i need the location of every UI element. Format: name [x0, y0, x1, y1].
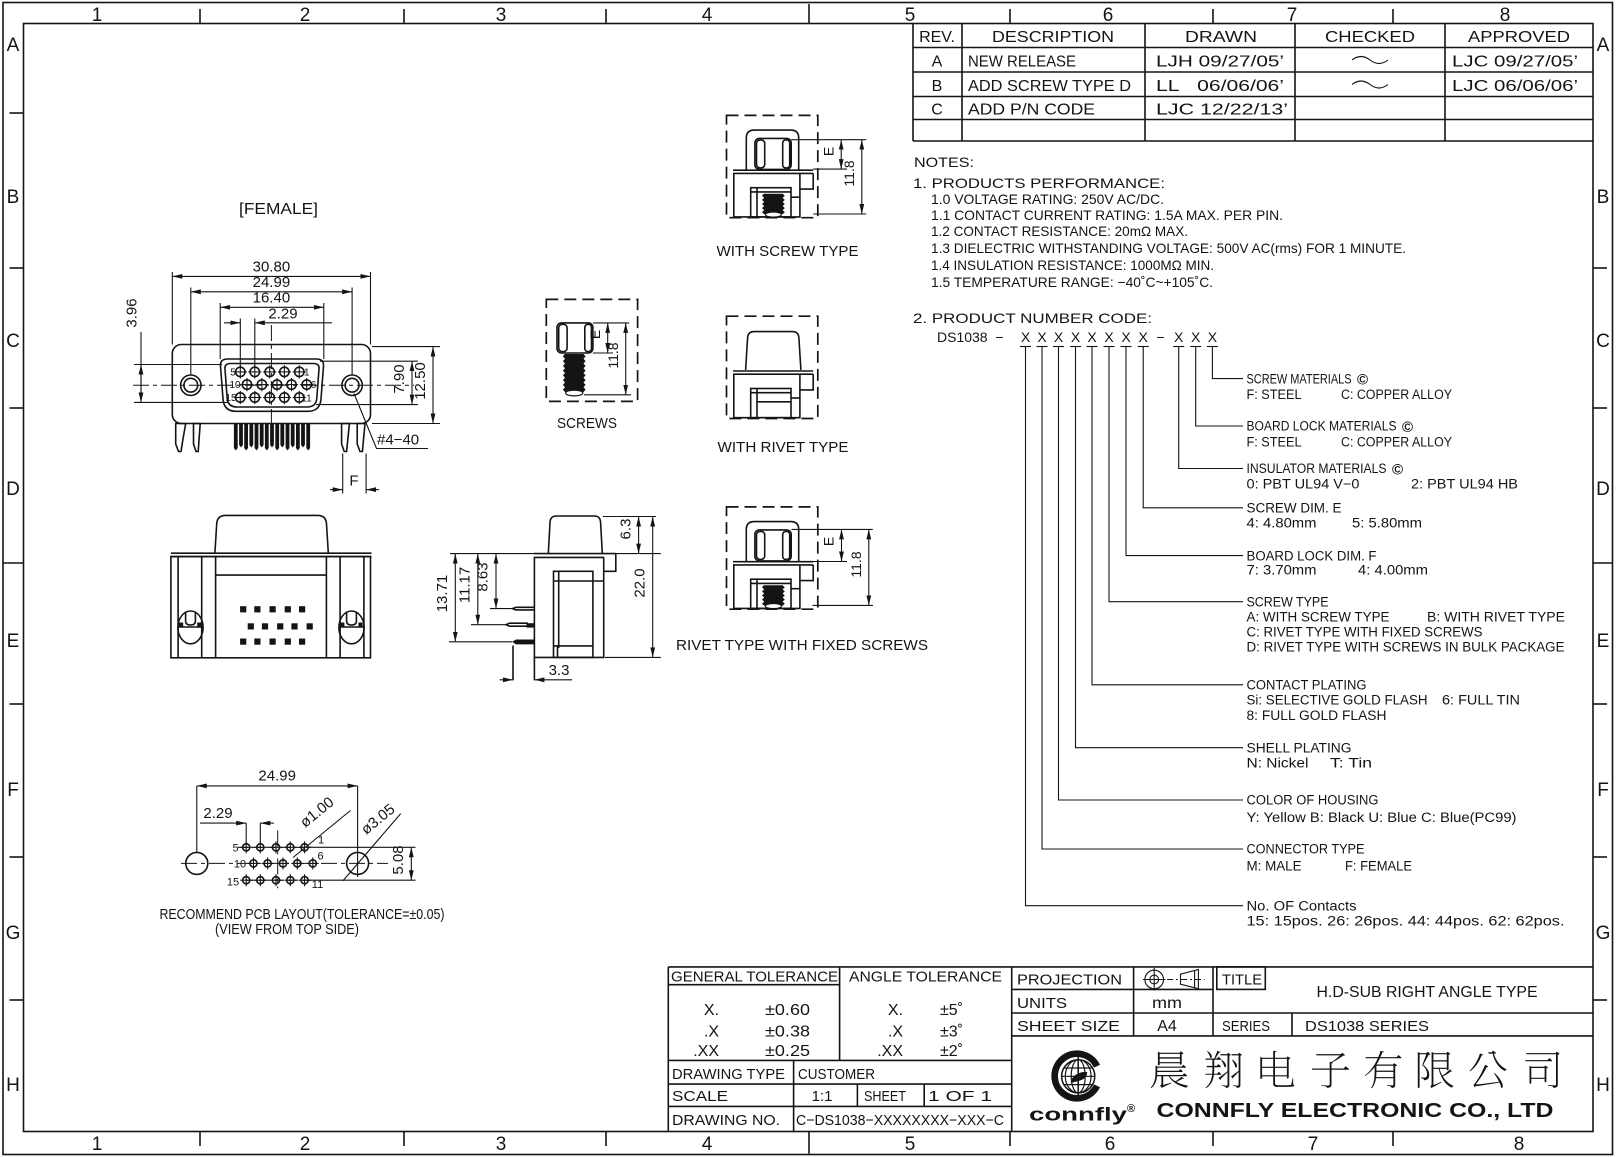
svg-text:5: 5.80mm: 5: 5.80mm: [1352, 516, 1422, 531]
svg-text:CONNFLY ELECTRONIC CO., LTD: CONNFLY ELECTRONIC CO., LTD: [1157, 1099, 1554, 1122]
svg-text:LJH 09/27/05’: LJH 09/27/05’: [1156, 54, 1284, 71]
svg-text:E: E: [821, 537, 837, 546]
PCB LAYOUT: [160, 768, 445, 939]
svg-text:2.29: 2.29: [268, 305, 297, 322]
svg-text:11.8: 11.8: [841, 160, 857, 186]
svg-text:24.99: 24.99: [258, 768, 296, 785]
svg-text:DS1038 −: DS1038 −: [937, 329, 1004, 345]
svg-text:PROJECTION: PROJECTION: [1017, 972, 1122, 989]
svg-text:4: 4.80mm: 4: 4.80mm: [1247, 516, 1317, 531]
svg-text:1:1: 1:1: [812, 1088, 833, 1105]
grid tick top: [403, 9, 405, 24]
svg-text:−: −: [1156, 329, 1164, 345]
dim 30.80: [172, 275, 370, 277]
dim 11.17: [477, 554, 479, 625]
svg-text:11.8: 11.8: [605, 342, 621, 368]
svg-text:H: H: [6, 1075, 20, 1096]
svg-text:C: COPPER ALLOY: C: COPPER ALLOY: [1341, 434, 1452, 449]
board lock oval left: [178, 611, 203, 644]
svg-text:4: 4: [702, 5, 713, 26]
svg-text:8: 8: [1514, 1134, 1525, 1155]
grid tick right: [1593, 267, 1607, 269]
svg-text:.XX: .XX: [693, 1043, 719, 1060]
dim 5.08: [309, 846, 416, 848]
svg-text:E: E: [1597, 631, 1610, 652]
svg-text:5: 5: [905, 5, 916, 26]
mounting hole left: [181, 375, 201, 395]
svg-text:#4−40: #4−40: [377, 432, 419, 449]
svg-text:11: 11: [312, 879, 323, 891]
svg-text:C: COPPER ALLOY: C: COPPER ALLOY: [1341, 387, 1452, 402]
svg-text:16.40: 16.40: [253, 290, 291, 307]
svg-text:4: 4: [702, 1134, 713, 1155]
svg-text:LJC 06/06/06’: LJC 06/06/06’: [1452, 78, 1578, 95]
svg-text:±0.60: ±0.60: [765, 1002, 810, 1019]
grid tick bottom: [403, 1132, 405, 1147]
pin middle: [506, 623, 528, 626]
svg-text:11: 11: [301, 394, 312, 405]
svg-text:®: ®: [1127, 1103, 1135, 1115]
svg-text:12.50: 12.50: [412, 362, 429, 400]
SIDE VIEW: [434, 516, 661, 680]
svg-text:.X: .X: [704, 1024, 719, 1041]
dim E view1: [791, 139, 866, 141]
dim 24.99: [191, 291, 352, 293]
grid tick bottom: [808, 1132, 810, 1154]
svg-text:24.99: 24.99: [253, 274, 291, 291]
svg-text:CHECKED: CHECKED: [1325, 29, 1415, 46]
svg-text:13.71: 13.71: [434, 575, 451, 613]
svg-text:1.5 TEMPERATURE RANGE: −40˚C~+: 1.5 TEMPERATURE RANGE: −40˚C~+105˚C.: [931, 274, 1213, 290]
svg-text:1.4 INSULATION RESISTANCE: 100: 1.4 INSULATION RESISTANCE: 1000MΩ MIN.: [931, 257, 1214, 273]
dim 13.71: [454, 554, 456, 642]
svg-text:6: 6: [1105, 1134, 1116, 1155]
svg-text:4: 4.00mm: 4: 4.00mm: [1358, 562, 1428, 577]
svg-text:DRAWING TYPE: DRAWING TYPE: [672, 1066, 785, 1083]
dim E view3: [792, 528, 873, 530]
dim 2.29: [224, 322, 240, 324]
company name chinese: [1151, 1051, 1560, 1089]
svg-text:T: Tin: T: Tin: [1330, 756, 1372, 771]
grid tick top: [1392, 9, 1394, 24]
pin bottom thick: [512, 640, 534, 645]
svg-text:SHEET SIZE: SHEET SIZE: [1017, 1018, 1120, 1035]
grid tick top: [199, 9, 201, 24]
svg-text:SERIES: SERIES: [1222, 1018, 1270, 1035]
svg-text:WITH SCREW TYPE: WITH SCREW TYPE: [717, 243, 859, 260]
svg-text:CUSTOMER: CUSTOMER: [798, 1066, 875, 1083]
svg-text:LL 06/06/06’: LL 06/06/06’: [1156, 78, 1284, 95]
grid tick right: [1593, 999, 1607, 1001]
svg-text:5.08: 5.08: [390, 845, 407, 874]
dim 16.40: [220, 306, 324, 308]
svg-text:TITLE: TITLE: [1222, 972, 1262, 989]
centerline horizontal: [181, 862, 388, 864]
board lock oval right: [339, 611, 364, 644]
nose outline: [215, 515, 328, 553]
dim 3.3: [500, 679, 513, 681]
svg-text:X: X: [1087, 329, 1097, 345]
projection table: [1012, 988, 1213, 990]
svg-text:H.D-SUB RIGHT ANGLE TYPE: H.D-SUB RIGHT ANGLE TYPE: [1317, 984, 1538, 1001]
grid tick right: [1593, 562, 1612, 564]
svg-text:1: 1: [92, 1134, 103, 1155]
svg-text:X: X: [1139, 329, 1149, 345]
svg-text:2: PBT UL94 HB: 2: PBT UL94 HB: [1411, 476, 1518, 491]
product code leader lines: [1212, 347, 1243, 379]
svg-text:SCREW MATERIALS: SCREW MATERIALS: [1247, 371, 1352, 386]
svg-text:C: C: [1596, 331, 1610, 352]
svg-text:©: ©: [1392, 461, 1403, 478]
svg-text:N: Nickel: N: Nickel: [1247, 756, 1309, 771]
mounting hole right: [342, 375, 362, 395]
extension lines: [171, 272, 173, 345]
dim 11.8 screws: [584, 394, 631, 396]
leader dia 1.00: [293, 811, 351, 858]
svg-text:±5˚: ±5˚: [940, 1002, 963, 1019]
svg-text:E: E: [7, 631, 20, 652]
svg-text:DRAWN: DRAWN: [1185, 29, 1257, 46]
grid tick left: [10, 267, 24, 269]
svg-text:7: 7: [1308, 1134, 1319, 1155]
svg-text:1.2 CONTACT RESISTANCE: 20mΩ M: 1.2 CONTACT RESISTANCE: 20mΩ MAX.: [931, 223, 1188, 239]
svg-text:2: 2: [300, 5, 311, 26]
grid tick left: [10, 112, 24, 114]
svg-text:G: G: [1596, 923, 1611, 944]
svg-text:5: 5: [232, 843, 238, 855]
grid tick bottom: [1392, 1132, 1394, 1147]
board lock tines left: [176, 424, 186, 452]
#4-40 leader: [354, 394, 428, 449]
svg-text:±0.25: ±0.25: [765, 1043, 810, 1060]
svg-text:1.3 DIELECTRIC WITHSTANDING VO: 1.3 DIELECTRIC WITHSTANDING VOLTAGE: 500…: [931, 240, 1406, 256]
svg-text:CONTACT PLATING: CONTACT PLATING: [1247, 678, 1367, 693]
svg-text:11.17: 11.17: [457, 567, 474, 603]
svg-text:NOTES:: NOTES:: [914, 154, 974, 170]
svg-text:C: C: [6, 331, 20, 352]
svg-text:H: H: [1596, 1075, 1610, 1096]
contact pins front view: [236, 367, 245, 376]
svg-text:(VIEW FROM TOP SIDE): (VIEW FROM TOP SIDE): [215, 921, 359, 938]
svg-text:6: 6: [1103, 5, 1114, 26]
centerline horizontal: [133, 384, 414, 386]
svg-text:F: F: [349, 473, 358, 490]
grid tick left: [4, 562, 24, 564]
svg-text:E: E: [587, 330, 603, 339]
svg-text:B: WITH RIVET TYPE: B: WITH RIVET TYPE: [1427, 610, 1565, 625]
svg-text:7: 3.70mm: 7: 3.70mm: [1247, 562, 1317, 577]
grid tick left: [10, 999, 24, 1001]
grid tick top: [1009, 9, 1011, 24]
svg-text:X.: X.: [704, 1002, 719, 1019]
dim 22.0: [605, 656, 661, 658]
grid tick left: [10, 703, 24, 705]
svg-text:Y: Yellow B: Black U: Blue C:: Y: Yellow B: Black U: Blue C: Blue(PC99): [1247, 810, 1517, 825]
grid tick bottom: [1009, 1132, 1011, 1147]
svg-text:11.8: 11.8: [848, 551, 864, 577]
svg-text:G: G: [6, 923, 21, 944]
svg-text:7.90: 7.90: [391, 364, 408, 393]
dim 11.8 view3: [813, 604, 874, 606]
svg-text:.X: .X: [888, 1024, 903, 1041]
dim 11.8 view1: [813, 213, 866, 215]
svg-text:X.: X.: [888, 1002, 903, 1019]
svg-text:B: B: [7, 187, 20, 208]
svg-text:.XX: .XX: [877, 1043, 903, 1060]
REAR VIEW - RIVET TYPE WITH FIXED SCREWS: [727, 507, 818, 609]
svg-text:A: A: [1597, 35, 1610, 56]
svg-text:B: B: [1597, 187, 1610, 208]
grid tick bottom: [1212, 1132, 1214, 1147]
connfly logo: [1055, 1054, 1097, 1099]
svg-text:C: C: [931, 102, 943, 119]
svg-text:X: X: [1054, 329, 1064, 345]
product code labels: [1247, 371, 1566, 928]
svg-text:X: X: [1021, 329, 1031, 345]
svg-text:F: STEEL: F: STEEL: [1247, 387, 1302, 402]
svg-text:5: 5: [230, 367, 236, 378]
svg-text:INSULATOR MATERIALS: INSULATOR MATERIALS: [1247, 461, 1387, 476]
svg-text:A: A: [7, 35, 20, 56]
dim E screws: [593, 322, 629, 324]
svg-text:[FEMALE]: [FEMALE]: [239, 201, 318, 218]
board lock tines right: [342, 424, 350, 452]
revision table: [913, 24, 1593, 142]
FRONT VIEW [FEMALE]: [124, 201, 441, 494]
SCREWS detail view: [546, 299, 637, 432]
svg-text:F: F: [1597, 780, 1609, 801]
svg-text:ADD SCREW TYPE D: ADD SCREW TYPE D: [968, 78, 1131, 95]
svg-text:No. OF Contacts: No. OF Contacts: [1247, 898, 1357, 913]
svg-text:2.29: 2.29: [203, 805, 232, 822]
svg-text:SHEET: SHEET: [864, 1088, 906, 1105]
svg-text:ADD P/N CODE: ADD P/N CODE: [968, 102, 1095, 119]
big hole left: [186, 852, 208, 874]
product code X ticks: [1020, 346, 1031, 348]
dim F: [342, 454, 344, 494]
pin holes: [243, 844, 250, 851]
svg-text:6.3: 6.3: [617, 519, 634, 540]
body: [534, 557, 603, 657]
svg-text:SCREW DIM. E: SCREW DIM. E: [1247, 501, 1342, 516]
ext line top left: [450, 553, 534, 555]
svg-text:3.96: 3.96: [124, 298, 141, 327]
grid tick bottom: [605, 1132, 607, 1147]
svg-text:RIVET TYPE WITH FIXED SCREWS: RIVET TYPE WITH FIXED SCREWS: [676, 637, 928, 654]
right tab: [604, 554, 616, 572]
grid tick left: [10, 856, 24, 858]
shroud outer: [220, 359, 323, 411]
svg-text:3.3: 3.3: [549, 662, 570, 679]
svg-text:7: 7: [1287, 5, 1298, 26]
grid tick top: [808, 4, 810, 24]
board lock side: [513, 646, 534, 681]
flange: [534, 553, 616, 555]
svg-text:E: E: [820, 147, 836, 156]
svg-text:BOARD LOCK MATERIALS: BOARD LOCK MATERIALS: [1247, 419, 1397, 434]
svg-text:C: RIVET TYPE WITH FIXED SCREW: C: RIVET TYPE WITH FIXED SCREWS: [1247, 625, 1483, 640]
svg-text:APPROVED: APPROVED: [1468, 29, 1570, 46]
svg-text:F: FEMALE: F: FEMALE: [1345, 859, 1412, 874]
svg-text:WITH RIVET TYPE: WITH RIVET TYPE: [718, 439, 849, 456]
screw thread: [563, 354, 586, 392]
svg-text:±3˚: ±3˚: [940, 1024, 963, 1041]
svg-text:8.63: 8.63: [475, 562, 492, 591]
series row: [1291, 1013, 1293, 1036]
dim 2.29 pcb: [245, 823, 247, 843]
projection symbol: [1145, 970, 1164, 989]
pin top: [513, 607, 535, 610]
svg-text:2: 2: [300, 1134, 311, 1155]
svg-text:6: FULL TIN: 6: FULL TIN: [1442, 693, 1520, 708]
svg-text:ANGLE TOLERANCE: ANGLE TOLERANCE: [849, 969, 1002, 986]
svg-text:UNITS: UNITS: [1017, 995, 1067, 1012]
svg-text:5: 5: [905, 1134, 916, 1155]
BOTTOM VIEW: [171, 515, 372, 657]
svg-text:CONNECTOR TYPE: CONNECTOR TYPE: [1247, 842, 1365, 857]
grid tick bottom: [199, 1132, 201, 1147]
dim 24.99 pcb: [196, 786, 198, 852]
svg-text:D: RIVET TYPE WITH SCREWS IN B: D: RIVET TYPE WITH SCREWS IN BULK PACKAG…: [1247, 639, 1565, 654]
svg-text:±2˚: ±2˚: [940, 1043, 963, 1060]
svg-text:F: STEEL: F: STEEL: [1247, 434, 1302, 449]
svg-text:X: X: [1121, 329, 1131, 345]
svg-text:1: 1: [304, 367, 310, 378]
svg-text:COLOR OF HOUSING: COLOR OF HOUSING: [1247, 793, 1379, 808]
svg-text:10: 10: [234, 859, 246, 871]
svg-text:±0.38: ±0.38: [765, 1024, 810, 1041]
flange lines: [171, 552, 372, 554]
svg-text:X: X: [1104, 329, 1114, 345]
svg-text:1. PRODUCTS PERFORMANCE:: 1. PRODUCTS PERFORMANCE:: [913, 175, 1165, 191]
svg-text:D: D: [6, 479, 20, 500]
grid tick top: [605, 9, 607, 24]
shroud inner: [225, 364, 319, 408]
TITLE BLOCK: [668, 967, 1593, 1132]
centerline vertical: [270, 325, 272, 432]
svg-text:8: 8: [1500, 5, 1511, 26]
svg-text:1.1 CONTACT CURRENT RATING: 1.: 1.1 CONTACT CURRENT RATING: 1.5A MAX. PE…: [931, 207, 1283, 223]
svg-text:8: FULL GOLD FLASH: 8: FULL GOLD FLASH: [1247, 708, 1387, 723]
svg-text:6: 6: [317, 851, 323, 863]
inner block: [554, 571, 593, 657]
svg-text:LJC 12/22/13’: LJC 12/22/13’: [1156, 102, 1288, 119]
leader dia 3.05: [343, 814, 401, 881]
svg-text:DRAWING NO.: DRAWING NO.: [672, 1112, 780, 1129]
svg-text:3: 3: [496, 1134, 507, 1155]
svg-text:B: B: [932, 78, 943, 95]
dim 12.50: [372, 346, 440, 348]
svg-text:A: A: [932, 54, 943, 71]
svg-text:DESCRIPTION: DESCRIPTION: [992, 29, 1114, 46]
svg-text:22.0: 22.0: [631, 568, 648, 597]
svg-text:A: WITH SCREW TYPE: A: WITH SCREW TYPE: [1247, 610, 1390, 625]
scale row: [668, 1105, 1011, 1107]
svg-text:BOARD LOCK DIM. F: BOARD LOCK DIM. F: [1247, 548, 1377, 563]
svg-text:3: 3: [496, 5, 507, 26]
svg-text:X: X: [1071, 329, 1081, 345]
grid tick top: [1212, 9, 1214, 24]
svg-text:Si: SELECTIVE GOLD FLASH: Si: SELECTIVE GOLD FLASH: [1247, 693, 1428, 708]
title box: [1217, 967, 1266, 990]
title block frame: [668, 966, 1593, 968]
nose: [548, 516, 602, 554]
grid tick right: [1593, 856, 1607, 858]
REAR VIEW - WITH SCREW TYPE: [727, 115, 818, 217]
svg-text:A4: A4: [1157, 1018, 1177, 1035]
svg-text:0: PBT UL94 V−0: 0: PBT UL94 V−0: [1247, 476, 1360, 491]
svg-text:1.0 VOLTAGE RATING: 250V AC/DC: 1.0 VOLTAGE RATING: 250V AC/DC.: [931, 191, 1164, 207]
big hole right: [347, 852, 369, 874]
solder pin comb: [234, 424, 238, 451]
solder pads: [240, 606, 246, 612]
svg-text:LJC 09/27/05’: LJC 09/27/05’: [1452, 54, 1578, 71]
svg-text:X: X: [1174, 329, 1184, 345]
centerline vertical pins: [277, 830, 279, 888]
svg-text:X: X: [1191, 329, 1201, 345]
svg-text:15: 15pos. 26: 26pos. 44: 44po: 15: 15pos. 26: 26pos. 44: 44pos. 62: 62p…: [1247, 914, 1565, 929]
svg-text:SCALE: SCALE: [672, 1088, 728, 1105]
body rect: [171, 557, 371, 658]
svg-text:NEW RELEASE: NEW RELEASE: [968, 54, 1076, 71]
svg-text:SCREWS: SCREWS: [557, 415, 617, 432]
svg-text:SHELL PLATING: SHELL PLATING: [1247, 740, 1352, 755]
svg-text:D: D: [1596, 479, 1610, 500]
ext pins left: [490, 608, 513, 610]
grid tick left: [10, 407, 24, 409]
svg-text:F: F: [7, 780, 19, 801]
svg-text:connfly: connfly: [1029, 1105, 1127, 1125]
notes text: [913, 154, 1406, 326]
dim 3.96: [134, 364, 222, 366]
svg-text:1 OF 1: 1 OF 1: [928, 1088, 992, 1105]
svg-text:©: ©: [1357, 372, 1368, 389]
svg-text:X: X: [1208, 329, 1218, 345]
svg-text:2. PRODUCT NUMBER CODE:: 2. PRODUCT NUMBER CODE:: [913, 310, 1152, 326]
dim 7.90: [320, 360, 418, 362]
drawing type row: [668, 1083, 1011, 1085]
grid tick right: [1593, 703, 1607, 705]
dim 6.3: [603, 516, 656, 518]
svg-text:1: 1: [92, 5, 103, 26]
dim 8.63: [495, 554, 497, 609]
svg-text:15: 15: [227, 877, 239, 889]
svg-text:X: X: [1037, 329, 1047, 345]
svg-text:GENERAL TOLERANCE: GENERAL TOLERANCE: [671, 969, 838, 986]
screw hex head: [557, 323, 593, 353]
shell line: [216, 574, 327, 576]
svg-text:SCREW TYPE: SCREW TYPE: [1247, 594, 1329, 609]
REAR VIEW - WITH RIVET TYPE: [727, 316, 818, 418]
svg-text:DS1038 SERIES: DS1038 SERIES: [1305, 1018, 1429, 1035]
general tolerance box: [668, 984, 839, 986]
grid tick right: [1593, 407, 1607, 409]
inner verticals: [177, 557, 179, 658]
front body outline: [172, 345, 370, 424]
svg-text:30.80: 30.80: [253, 259, 291, 276]
svg-text:mm: mm: [1152, 995, 1182, 1012]
svg-text:C−DS1038−XXXXXXXX−XXX−C: C−DS1038−XXXXXXXX−XXX−C: [796, 1112, 1004, 1129]
svg-text:REV.: REV.: [919, 29, 955, 46]
svg-text:M: MALE: M: MALE: [1247, 859, 1302, 874]
